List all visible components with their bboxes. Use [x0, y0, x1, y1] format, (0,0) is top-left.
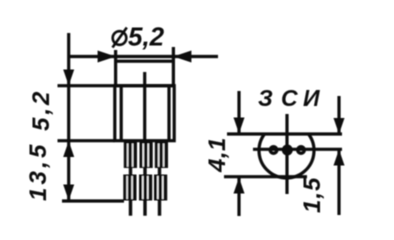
svg-text:5,2: 5,2	[128, 22, 165, 52]
svg-text:С: С	[281, 85, 298, 111]
left view: down arrow tip at y85	[63, 70, 74, 86]
svg-text:13,5: 13,5	[25, 141, 52, 201]
right view: 4,1 down arrow	[234, 118, 245, 134]
left view: body interior line left	[120, 86, 123, 141]
left view: diameter symbol of ø5,2	[113, 28, 127, 48]
right view: lead labels З С И	[258, 85, 320, 111]
right view: body circle with flat top	[259, 134, 314, 178]
left view: crimp hatch row 2 blocks	[123, 175, 167, 201]
left view: horizontal dimension line for ø5,2	[69, 55, 218, 58]
left view: rotated dimension text 5,2	[28, 89, 55, 131]
right view: 1,5 dimension line upper segment	[337, 96, 340, 134]
right view: 4,1 dimension line upper segment	[237, 91, 240, 134]
left view: crimp hatch row 1 blocks	[124, 142, 168, 168]
left view: rotated dimension text 13,5	[25, 141, 52, 201]
left view: right extension line above cap	[172, 47, 175, 62]
right view: right lead dot (И)	[298, 147, 305, 154]
svg-text:И: И	[303, 85, 320, 111]
left view: left extension line above cap	[114, 50, 117, 62]
right view: 1,5 down arrow	[334, 118, 345, 134]
left view: up arrow tip at y141	[63, 141, 74, 157]
right view: left lead dot (З)	[270, 147, 277, 154]
svg-text:5,2: 5,2	[28, 89, 55, 131]
left view: center lead stub inside cap	[143, 72, 146, 86]
left view: bottom extension line at y201	[62, 199, 124, 202]
left view: vertical dimension line	[67, 33, 70, 200]
left view: leads between crimp rows	[131, 167, 160, 176]
left view: white hatch streaks row 2	[127, 176, 163, 199]
right view: flat top line	[227, 132, 342, 135]
left view: white hatch streaks row 1	[128, 144, 164, 167]
svg-text:4,1: 4,1	[204, 137, 231, 173]
svg-text:1,5: 1,5	[299, 177, 326, 213]
right view: 1,5 dimension line lower segment	[337, 150, 340, 216]
svg-text:З: З	[258, 85, 273, 111]
left view: body interior line center	[143, 86, 146, 141]
right view: 1,5 up arrow	[334, 150, 345, 166]
right view: vertical center line	[285, 114, 288, 194]
left view: left arrowhead of ø5,2	[98, 51, 116, 63]
right view: middle lead dot (С)	[282, 145, 293, 156]
left view: down arrow tip at y201	[63, 185, 74, 201]
left view: body interior line right	[167, 86, 170, 141]
left view: step extension line at y85	[58, 84, 115, 87]
left view: body outline	[115, 86, 174, 141]
right view: bottom extension line	[224, 175, 307, 178]
left view: lead tails below crimps	[131, 200, 160, 216]
left view: right arrowhead of ø5,2	[173, 51, 191, 63]
left view: dimension text 5,2	[128, 22, 165, 52]
left view: extension line at y140.7	[58, 139, 115, 142]
right view: horizontal center line	[253, 148, 342, 151]
right view: rotated dimension text 4,1	[204, 137, 231, 173]
right view: 4,1 dimension line lower segment	[237, 178, 240, 217]
right view: rotated dimension text 1,5	[299, 177, 326, 213]
right view: 4,1 up arrow	[234, 178, 245, 194]
left view: cap outline	[116, 61, 174, 85]
